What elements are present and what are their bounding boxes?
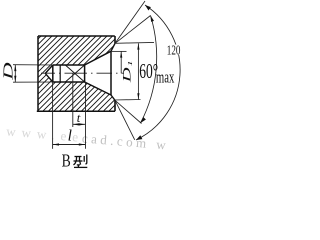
120° chamfer lower edge	[111, 95, 115, 100]
svg-text:l: l	[68, 127, 72, 144]
120° chamfer extension line upper	[115, 1, 145, 43]
60 arc arrowhead bottom	[141, 117, 146, 123]
cylinder start circle (edge-on vertical)	[52, 65, 54, 82]
inner circle edge	[59, 65, 61, 82]
dimension l: arrowheads inside pointing outward	[53, 143, 59, 145]
centerline (axis)	[41, 72, 124, 74]
rim diameter dimension line	[137, 43, 139, 99]
120° angle dimension arc	[136, 5, 180, 140]
dimension l: dimension line	[53, 144, 86, 146]
block outline: left edge	[37, 36, 39, 111]
block right face upper segment	[114, 36, 116, 43]
svg-text:cad.com w: cad.com w	[81, 130, 167, 152]
svg-text:D: D	[120, 67, 133, 83]
60° cone extension line lower	[115, 100, 142, 123]
120° chamfer upper edge	[111, 43, 115, 51]
120 arc arrowhead bottom	[136, 135, 142, 140]
drill point V (118° tip)	[45, 65, 53, 82]
watermark www.??cad.com	[6, 124, 167, 153]
hatched block section (hole cut out)	[38, 36, 115, 111]
svg-text:max: max	[156, 69, 174, 87]
dimension t: dimension line with outside arrows	[73, 123, 85, 125]
dimension t: extension line from cone apex	[72, 73, 74, 127]
cylinder top edge	[53, 64, 85, 66]
block right face lower segment	[114, 100, 116, 111]
dimension D: arrowheads	[14, 65, 16, 71]
60 arc arrowhead top	[151, 16, 155, 22]
120° chamfer extension line lower	[115, 100, 135, 140]
60° cone lower generator	[85, 82, 111, 95]
rim diameter dimension: bottom extension line	[114, 99, 141, 102]
dimension D: extension lines	[13, 65, 53, 83]
block outline: bottom edge	[37, 110, 115, 112]
60° cone upper generator	[85, 51, 111, 65]
dimension D: dimension line	[14, 65, 16, 82]
60° cone extension line upper	[115, 16, 151, 44]
rim diameter dimension: top extension line	[116, 41, 155, 44]
dimension l: extension line left	[52, 82, 54, 149]
D1 circle at cone mouth (edge-on vertical)	[110, 51, 112, 95]
60° angle dimension arc	[141, 16, 157, 124]
svg-text:D: D	[1, 62, 15, 81]
dimension D1 (cone mouth) half dimension line with up arrow	[111, 50, 127, 52]
svg-text:t: t	[77, 111, 81, 125]
cylinder bottom edge	[53, 81, 85, 83]
svg-text:120: 120	[167, 43, 181, 58]
svg-text:B: B	[62, 152, 71, 170]
120 arc arrowhead top	[145, 5, 151, 11]
dimension t: extension line right	[85, 82, 87, 149]
block outline: top edge	[38, 35, 115, 37]
60° cone apex construction X diagonal 1	[65, 65, 84, 82]
120 label (with halo over arc)	[166, 45, 182, 55]
caption 型 (drawn strokes)	[73, 155, 87, 168]
60° cone apex construction X diagonal 2	[65, 65, 84, 82]
cone start circle at t reference (edge-on vertical)	[84, 65, 86, 82]
svg-text:1: 1	[127, 60, 134, 66]
